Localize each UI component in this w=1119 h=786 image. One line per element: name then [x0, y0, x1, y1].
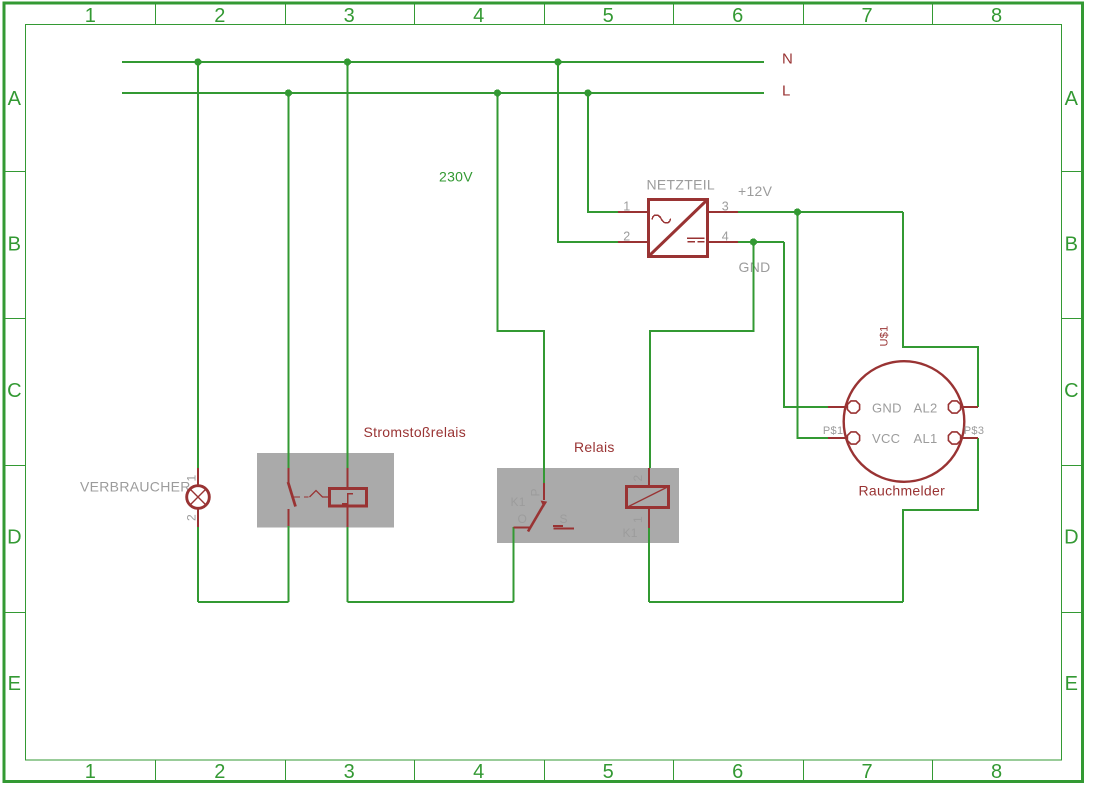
gray highlight box Stromstossrelais [257, 453, 394, 528]
wire L down to netzteil pin1 [588, 93, 618, 212]
wire stromstoss coil to relay contact O [348, 601, 514, 603]
wire +12V to VCC [798, 212, 829, 438]
svg-text:U$1: U$1 [879, 325, 891, 346]
wire L to stromstoss switch [288, 93, 290, 468]
frame column ticks top [156, 4, 933, 25]
svg-text:D: D [1064, 527, 1079, 549]
svg-text:GND: GND [872, 401, 902, 416]
svg-text:Stromstoßrelais: Stromstoßrelais [364, 424, 467, 440]
svg-text:+12V: +12V [738, 183, 773, 199]
svg-text:A: A [1065, 88, 1079, 110]
svg-text:1: 1 [185, 475, 199, 482]
lamp pin 1 [197, 468, 199, 485]
stromstoss coil hysteresis symbol [342, 494, 353, 504]
junction L at netzteil column [584, 89, 591, 96]
frame column numbers top [85, 5, 1003, 27]
svg-text:E: E [1065, 673, 1079, 695]
lamp X cross [191, 490, 205, 504]
svg-text:P$3: P$3 [964, 425, 984, 437]
frame column ticks bottom [156, 760, 933, 781]
svg-text:VERBRAUCHER: VERBRAUCHER [80, 479, 191, 495]
netzteil pin 4 [708, 241, 738, 243]
svg-text:2: 2 [631, 475, 645, 482]
wire lamp pin2 down [197, 527, 199, 602]
svg-text:N: N [782, 51, 793, 68]
svg-text:B: B [8, 234, 22, 256]
svg-text:8: 8 [991, 761, 1002, 783]
smoke detector circle U$1 [844, 361, 965, 482]
wire relay contact O down [513, 527, 515, 602]
junction GND [750, 238, 757, 245]
svg-text:1: 1 [623, 200, 630, 214]
rauchmelder pad VCC octagon [847, 432, 859, 444]
wire L down to relay switch P [498, 93, 545, 483]
stromstoss coil box K1 [330, 489, 367, 507]
wire +12V rail [738, 211, 903, 213]
svg-text:VCC: VCC [872, 431, 900, 446]
svg-text:L: L [782, 83, 791, 100]
svg-text:1: 1 [85, 761, 96, 783]
netzteil DC symbol [687, 238, 705, 242]
stromstoss linkage dashes [294, 496, 309, 498]
netzteil diagonal [650, 201, 707, 256]
relais coil pin 1 [648, 509, 650, 528]
gray highlight box Relais [497, 468, 679, 543]
svg-text:6: 6 [732, 5, 743, 27]
stromstoss linkage zigzag [310, 491, 329, 498]
wire lamp bottom to switch bottom [198, 601, 289, 603]
svg-text:GND: GND [739, 259, 771, 275]
svg-text:P$1: P$1 [823, 425, 843, 437]
svg-text:2: 2 [214, 5, 225, 27]
svg-text:AL2: AL2 [914, 401, 938, 416]
wire GND to rauchmelder GND pin [784, 242, 828, 407]
svg-text:4: 4 [473, 761, 484, 783]
frame row letters right [1064, 88, 1079, 695]
rauchmelder pad AL1 octagon [948, 432, 960, 444]
svg-text:K1: K1 [511, 495, 526, 509]
wire net L bus [122, 92, 764, 94]
svg-text:A: A [8, 88, 22, 110]
relais contact O [514, 527, 531, 529]
svg-text:3: 3 [344, 761, 355, 783]
svg-text:2: 2 [185, 514, 199, 521]
svg-text:C: C [7, 380, 22, 402]
stromstoss switch pin bottom [288, 509, 290, 526]
svg-text:4: 4 [473, 5, 484, 27]
rauchmelder pin stub VCC [828, 437, 847, 439]
svg-text:1: 1 [631, 516, 645, 523]
netzteil pin 3 [708, 211, 738, 213]
wire stromstoss coil bottom [347, 527, 349, 602]
wire AL1 chain [903, 438, 978, 602]
relais coil box K1 [627, 487, 669, 508]
junction L at switch column [285, 89, 292, 96]
relais contact S [553, 526, 574, 529]
svg-text:2: 2 [214, 761, 225, 783]
svg-text:1: 1 [85, 5, 96, 27]
lamp pin 2 [197, 509, 199, 527]
svg-text:3: 3 [344, 5, 355, 27]
wire stromstoss switch bottom [288, 526, 290, 602]
svg-text:E: E [8, 673, 22, 695]
wire N to stromstoss coil [347, 62, 349, 468]
junction N at netzteil column [554, 58, 561, 65]
wire N down to netzteil pin2 [558, 62, 618, 242]
svg-text:Relais: Relais [574, 439, 615, 455]
frame row letters left [7, 88, 22, 695]
netzteil pin 1 [618, 211, 647, 213]
svg-text:D: D [7, 527, 22, 549]
junction L at relay column [494, 89, 501, 96]
frame column numbers bottom [85, 761, 1003, 783]
relais coil diagonal [627, 487, 669, 508]
svg-text:230V: 230V [439, 169, 473, 185]
svg-text:7: 7 [861, 5, 872, 27]
lamp circle E1 [187, 486, 210, 509]
stromstoss coil pin bottom [347, 507, 349, 527]
stromstoss switch pin top [288, 468, 290, 482]
svg-text:O: O [518, 512, 528, 526]
svg-text:AL1: AL1 [914, 431, 938, 446]
rauchmelder pin stub GND [828, 406, 847, 408]
wire N to lamp pin1 [197, 62, 199, 468]
svg-text:2: 2 [623, 230, 630, 244]
svg-text:3: 3 [722, 200, 729, 214]
wire GND from pin4 [738, 241, 784, 243]
svg-text:NETZTEIL: NETZTEIL [647, 177, 716, 193]
svg-text:8: 8 [991, 5, 1002, 27]
wire net N bus [122, 61, 764, 63]
netzteil AC tilde [652, 215, 671, 223]
wire relais coil pin1 down [648, 528, 650, 602]
svg-text:6: 6 [732, 761, 743, 783]
svg-text:C: C [1064, 380, 1079, 402]
rauchmelder pad AL2 octagon [948, 401, 960, 413]
netzteil pin 2 [618, 241, 647, 243]
wire +12V to AL2 [903, 212, 978, 407]
relais switch arrowhead [541, 501, 548, 508]
relais switch pin P [543, 483, 545, 500]
svg-text:4: 4 [722, 230, 729, 244]
svg-text:5: 5 [603, 5, 614, 27]
relais coil pin 2 [648, 468, 650, 485]
relais switch blade [528, 505, 544, 532]
svg-text:K1: K1 [623, 526, 638, 540]
power supply NETZTEIL box U1 [649, 200, 708, 257]
frame row ticks right [1062, 172, 1083, 613]
rauchmelder pin stub AL1 [961, 437, 978, 439]
junction N at lamp column [194, 58, 201, 65]
svg-text:Rauchmelder: Rauchmelder [859, 483, 946, 499]
svg-text:7: 7 [861, 761, 872, 783]
stromstoss switch blade [288, 482, 296, 507]
junction +12V [794, 208, 801, 215]
svg-text:B: B [1065, 234, 1079, 256]
wire relais coil to rauchmelder AL1 [649, 601, 903, 603]
svg-text:S: S [560, 512, 568, 526]
junction N at coil column [344, 58, 351, 65]
svg-text:5: 5 [603, 761, 614, 783]
frame row ticks left [4, 172, 25, 613]
stromstoss coil pin top [347, 468, 349, 487]
rauchmelder pin stub AL2 [961, 406, 978, 408]
svg-text:P: P [529, 488, 543, 496]
wire GND to relais coil pin2 [650, 242, 754, 468]
rauchmelder pad GND octagon [847, 401, 859, 413]
